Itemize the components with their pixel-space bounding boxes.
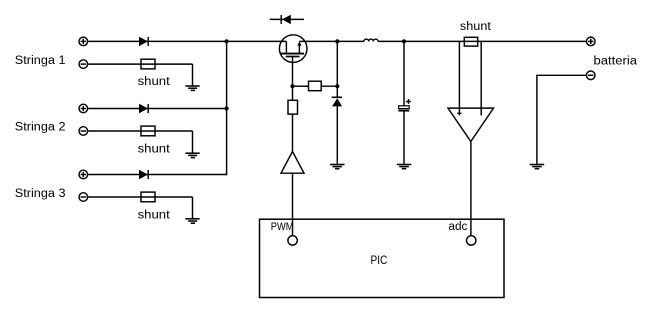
ground string2 [185, 153, 199, 157]
wire battery minus horizontal [537, 74, 587, 76]
junction drain tap [335, 39, 339, 43]
svg-text:Stringa 3: Stringa 3 [15, 188, 66, 200]
svg-text:shunt: shunt [138, 143, 171, 155]
pin adc circle [467, 236, 476, 245]
inductor L1 [364, 39, 378, 41]
svg-text:shunt: shunt [460, 21, 492, 33]
svg-text:batteria: batteria [594, 55, 638, 67]
diode D3 string3 [139, 170, 148, 179]
junction bus-string2 [225, 106, 229, 110]
resistor shunt1 [141, 59, 155, 69]
PIC U3 box [260, 219, 505, 297]
diode body D4 above mosfet [270, 15, 304, 24]
junction gate node [290, 84, 294, 88]
svg-text:PIC: PIC [371, 253, 388, 267]
wire clamp diode to ground [336, 106, 338, 164]
diode D5 clamp [332, 97, 342, 106]
junction clamp node [335, 84, 339, 88]
svg-text:shunt: shunt [138, 76, 171, 88]
wire gate drop [292, 57, 294, 101]
wire string3 minus [88, 196, 193, 198]
wire cap to ground [403, 112, 405, 165]
svg-text:shunt: shunt [138, 210, 171, 222]
ground string3 [185, 219, 199, 223]
wire string3 ground drop [192, 197, 194, 219]
wire cap drop [403, 41, 405, 105]
node batteria plus terminal [587, 37, 596, 46]
wire string2 ground drop [192, 131, 194, 153]
node Stringa1 plus terminal [79, 37, 88, 46]
op-amp U1 [448, 108, 494, 141]
wire string2 plus [88, 108, 227, 110]
wire main top rail right segment [299, 40, 364, 42]
node Stringa1 minus terminal [79, 60, 88, 69]
junction cap node [402, 39, 406, 43]
wire sense left [458, 41, 460, 115]
ground battery [530, 165, 545, 169]
resistor shunt3 [141, 192, 155, 202]
svg-text:Stringa 2: Stringa 2 [15, 122, 66, 134]
wire sense right [480, 41, 482, 115]
diode D1 string1 [139, 37, 148, 46]
wire string2 minus [88, 130, 193, 132]
node batteria minus terminal [586, 71, 595, 80]
ground clamp [330, 165, 345, 169]
wire R1 to clamp node [321, 85, 337, 87]
diode D2 string2 [139, 104, 148, 113]
wire op-amp output to adc [470, 142, 472, 236]
svg-text:PWM: PWM [271, 221, 294, 233]
resistor R1 [309, 81, 322, 91]
resistor shunt4 battery [464, 37, 477, 46]
ground cap [397, 165, 412, 169]
wire buffer to PWM pin [292, 173, 294, 236]
wire R2 to buffer [292, 114, 294, 151]
buffer U2 driver triangle [281, 152, 304, 174]
wire main top rail left segment [88, 40, 287, 42]
wire string1 ground drop [192, 64, 194, 86]
node Stringa3 plus terminal [79, 170, 88, 179]
wire gate to R1 [293, 85, 309, 87]
ground string1 [185, 86, 199, 90]
wire bus vertical [226, 41, 228, 175]
transistor Q1 mosfet [279, 35, 307, 63]
junction bus-string1 [225, 39, 229, 43]
op-amp plus input mark [457, 112, 461, 114]
wire main rail after inductor [378, 40, 586, 42]
node Stringa2 minus terminal [79, 127, 88, 136]
wire battery minus drop [536, 75, 538, 165]
pin PWM circle [288, 236, 297, 245]
wire string1 minus [88, 63, 193, 65]
svg-text:Stringa 1: Stringa 1 [15, 55, 66, 67]
svg-text:adc: adc [448, 221, 467, 233]
resistor R2 gate series [288, 100, 298, 114]
capacitor C1 [398, 99, 411, 111]
wire drain tap vertical [336, 41, 338, 97]
wire string3 plus [88, 174, 227, 176]
resistor shunt2 [141, 126, 155, 136]
node Stringa2 plus terminal [79, 104, 88, 113]
node Stringa3 minus terminal [79, 193, 88, 202]
